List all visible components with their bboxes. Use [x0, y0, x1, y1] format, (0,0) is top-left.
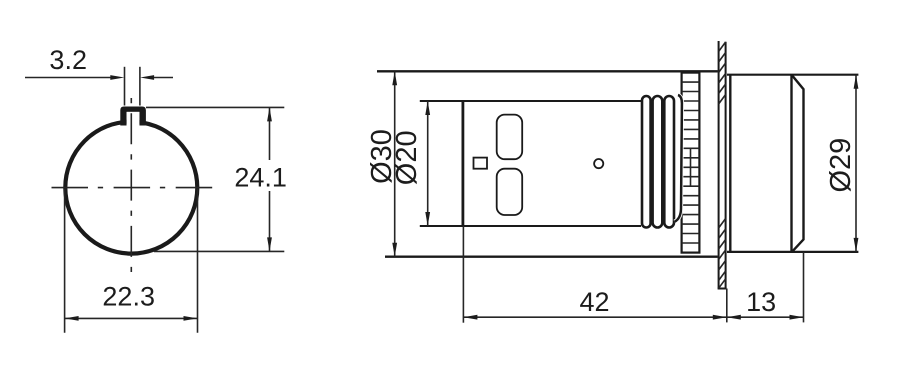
- svg-text:13: 13: [746, 287, 776, 317]
- svg-text:3.2: 3.2: [49, 45, 87, 75]
- svg-text:42: 42: [579, 287, 609, 317]
- svg-text:Ø29: Ø29: [825, 138, 857, 193]
- svg-text:Ø20: Ø20: [391, 130, 423, 185]
- svg-text:22.3: 22.3: [102, 282, 155, 312]
- svg-text:24.1: 24.1: [234, 163, 287, 193]
